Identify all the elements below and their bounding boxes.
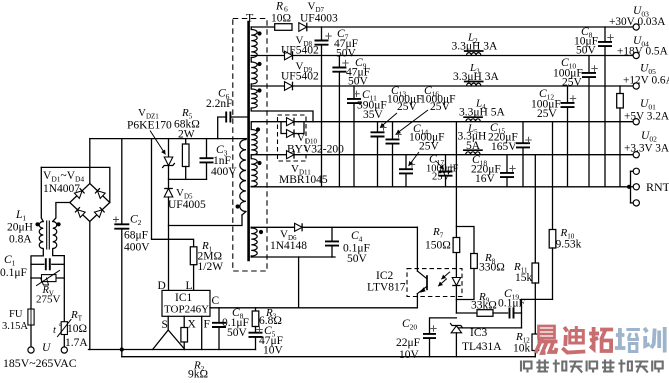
svg-text:400V: 400V: [124, 242, 150, 254]
wire C pin control node: [210, 307, 417, 309]
svg-text:TL431A: TL431A: [462, 341, 502, 353]
svg-text:+30V 0.03A: +30V 0.03A: [609, 16, 666, 28]
wire bias winding top: [251, 226, 294, 228]
diode VD5 UF4005: [164, 189, 173, 198]
svg-text:1/2W: 1/2W: [198, 261, 224, 273]
inductor L2 3.3uH 3A: [467, 53, 481, 56]
svg-text:50V: 50V: [227, 327, 248, 339]
svg-text:1N4148: 1N4148: [270, 240, 307, 252]
secondary winding group 5V: [250, 122, 252, 130]
diode VD7 UF4003: [299, 23, 307, 32]
capacitor C14 1000uF 25V: [405, 155, 407, 170]
svg-text:F: F: [204, 319, 210, 331]
svg-text:50V: 50V: [347, 253, 368, 265]
svg-text:25V: 25V: [562, 77, 583, 89]
capacitor C8 0.1uF 50V: [218, 308, 220, 323]
svg-text:P6KE170: P6KE170: [127, 120, 172, 132]
svg-text:0.1μF: 0.1μF: [0, 267, 27, 279]
capacitor C5 47uF 10V: [255, 327, 257, 333]
wire L1 top leads to bridge: [41, 167, 43, 221]
capacitor C16 1000uF 25V: [392, 122, 394, 140]
svg-text:UF4003: UF4003: [300, 13, 338, 25]
svg-text:IC2: IC2: [376, 270, 394, 282]
resistor R8 330ohm: [456, 227, 474, 254]
svg-text:D: D: [158, 280, 166, 292]
svg-text:FU: FU: [9, 309, 23, 320]
annotation arrow to C17: [436, 161, 444, 170]
svg-text:5A: 5A: [466, 140, 481, 152]
capacitor C15 220uF 165V: [522, 122, 524, 144]
capacitor C12 100uF 25V: [567, 86, 569, 103]
diode VD10b: [287, 130, 295, 138]
opto light arrows: [441, 272, 450, 280]
wire VD10 anode tie: [281, 122, 287, 134]
svg-text:185V~265VAC: 185V~265VAC: [3, 356, 77, 370]
wire drain node to primary bottom: [169, 215, 243, 226]
svg-text:X: X: [188, 319, 197, 331]
svg-text:3.3μH 3A: 3.3μH 3A: [452, 40, 498, 52]
output terminal U02 +3.3V: [633, 152, 639, 158]
svg-text:+3.3V 3A: +3.3V 3A: [624, 143, 669, 155]
primary phase dot: [236, 204, 240, 208]
capacitor C4 0.1uF 50V: [331, 227, 333, 241]
svg-text:T: T: [246, 11, 254, 25]
svg-text:TOP246Y: TOP246Y: [164, 304, 209, 316]
bridge diode VD3 (SW edge): [75, 207, 85, 217]
svg-text:25V: 25V: [432, 172, 451, 183]
capacitor C2 bulk 68uF 400V: [121, 139, 123, 225]
svg-text:1.7A: 1.7A: [65, 337, 88, 349]
wire S pin source V: [167, 316, 169, 330]
annotation arrow to VDZ1: [150, 131, 166, 155]
svg-text:UF5402: UF5402: [281, 45, 319, 57]
opto LED: [455, 253, 457, 278]
capacitor C11 390uF 35V: [353, 86, 355, 99]
wire secondary ground bus: [251, 186, 629, 188]
bridge diode VD1 (NW edge): [74, 188, 84, 198]
op IC1 TOP246Y box: [162, 290, 210, 316]
svg-text:25V: 25V: [430, 101, 451, 113]
svg-text:20μH: 20μH: [7, 222, 33, 234]
capacitor C10 100uF 25V: [588, 56, 590, 73]
svg-text:10V: 10V: [399, 349, 420, 361]
wire bridge plus to DC rail: [89, 139, 91, 184]
svg-text:3.15A: 3.15A: [2, 321, 28, 332]
svg-text:15k: 15k: [515, 272, 533, 284]
bridge diode VD2 (NE edge): [95, 188, 105, 198]
annotation arrow to C14: [409, 152, 420, 166]
wire F pin: [201, 316, 203, 349]
resistor R9 33k: [477, 310, 493, 317]
wire bridge minus to primary ground: [89, 222, 91, 350]
secondary winding group 18V: [251, 62, 257, 84]
capacitor C18 220uF 16V: [506, 155, 508, 173]
wire primary ground A: [89, 349, 256, 351]
capacitor C17 1000uF 25V: [445, 155, 447, 172]
opto phototransistor: [416, 227, 418, 271]
svg-text:50V: 50V: [576, 45, 597, 57]
svg-text:U: U: [42, 342, 51, 354]
wire VD10 cathode tie: [294, 122, 304, 134]
inductor L4 3.3uH 5A: [466, 119, 480, 122]
svg-text:°: °: [59, 322, 62, 331]
svg-text:BYV32-200: BYV32-200: [287, 144, 344, 156]
fuse FU: [30, 278, 32, 309]
RNT terminal group: [627, 185, 631, 189]
capacitor C3 1nF 400V: [206, 139, 208, 159]
svg-text:150Ω: 150Ω: [425, 240, 451, 252]
capacitor C20 22uF 10V: [430, 318, 457, 334]
svg-text:9.53k: 9.53k: [556, 238, 582, 250]
resistor R6 10ohm: [275, 24, 292, 31]
svg-text:165V: 165V: [491, 141, 517, 153]
wire R1 line-sense feed: [152, 139, 194, 247]
wire rail +30V: [251, 26, 275, 28]
capacitor C7 47uF 50V: [321, 27, 323, 40]
svg-text:UF4005: UF4005: [168, 199, 206, 211]
svg-text:IC3: IC3: [470, 327, 488, 339]
svg-text:10Ω: 10Ω: [271, 13, 291, 25]
wire 12V-winding stack tap to +5V rail: [251, 108, 313, 122]
diode VD10a: [287, 118, 295, 126]
bridge diode VD4 (SE edge): [94, 207, 104, 217]
secondary winding group 12V: [251, 89, 257, 108]
secondary winding group 30V: [250, 27, 252, 30]
resistor R2 9k on X pin: [183, 316, 185, 327]
svg-text:+5V 3.2A: +5V 3.2A: [624, 111, 669, 123]
svg-text:MBR1045: MBR1045: [279, 174, 328, 186]
transformer core: [247, 22, 250, 260]
svg-text:3.3μH 3A: 3.3μH 3A: [453, 71, 499, 83]
svg-text:10Ω: 10Ω: [67, 323, 87, 335]
svg-text:25V: 25V: [397, 101, 418, 113]
wire clamp bottom node: [169, 178, 207, 180]
svg-text:50V: 50V: [348, 76, 369, 88]
svg-text:+18V 0.5A: +18V 0.5A: [617, 46, 669, 58]
wire rail +12V: [251, 85, 284, 87]
diode VD6 1N4148: [295, 223, 303, 231]
svg-text:25V: 25V: [537, 108, 558, 120]
svg-text:1N4007: 1N4007: [43, 183, 80, 195]
svg-text:33kΩ: 33kΩ: [471, 300, 497, 312]
svg-text:330Ω: 330Ω: [479, 262, 505, 274]
wire bias return: [251, 256, 335, 258]
svg-text:68μF: 68μF: [124, 230, 148, 242]
svg-text:10V: 10V: [263, 345, 284, 357]
resistor R10 9.53k: [552, 122, 554, 230]
wire R9 C19 branch: [456, 312, 477, 314]
output terminal U01 +5V: [633, 119, 639, 125]
svg-text:R: R: [275, 1, 283, 13]
output terminal U03 +30V: [633, 24, 639, 30]
output terminal U05 +12V: [633, 83, 639, 89]
diode VD8 UF5402: [285, 51, 293, 60]
transformer T dashed box: [233, 19, 267, 272]
dual diode VD10 BYV32-200 dashed box (with VD11): [278, 115, 307, 161]
bleeder resistor: [619, 86, 621, 94]
wire rail +18V: [251, 55, 284, 57]
svg-text:0.8A: 0.8A: [9, 234, 32, 246]
output terminal U04 +18V: [633, 52, 639, 58]
svg-text:2.2nF: 2.2nF: [206, 98, 233, 110]
varistor RV: [31, 277, 64, 279]
bias winding: [250, 226, 252, 229]
thermistor RT: [63, 278, 65, 322]
annotation arrow to C16: [396, 110, 428, 134]
wire rail +5V: [252, 121, 287, 123]
svg-text:+12V 0.6A: +12V 0.6A: [623, 75, 669, 87]
svg-text:L: L: [186, 280, 193, 292]
capacitor C6 2.2nF: [218, 117, 226, 139]
wire rail +3.3V: [251, 154, 286, 156]
svg-text:RNT: RNT: [646, 180, 669, 194]
svg-text:10k: 10k: [513, 343, 531, 355]
wire L1 bottom leads: [31, 249, 43, 279]
watermark logo (stylized red/blue characters): [536, 326, 665, 353]
AC input terminal left: [28, 347, 34, 353]
wire TL431 ref: [459, 327, 522, 329]
common mode choke L1: [39, 222, 43, 249]
svg-text:IC1: IC1: [175, 292, 193, 304]
secondary winding group 3.3V: [250, 155, 252, 159]
node junction C2 / ground: [120, 347, 124, 351]
svg-text:25V: 25V: [419, 141, 440, 153]
svg-text:3.3μH 5A: 3.3μH 5A: [459, 107, 505, 119]
zener VDZ1 P6KE170: [168, 139, 170, 157]
capacitor C13 1000uF 25V: [377, 122, 379, 133]
svg-text:9kΩ: 9kΩ: [188, 369, 208, 379]
diode VD11 MBR1045: [287, 151, 295, 159]
resistor R7 150ohm: [455, 122, 457, 238]
capacitor C19 0.1uF: [510, 308, 514, 319]
bridge rectifier VD1-VD4: [70, 184, 110, 222]
resistor R11 15k: [534, 155, 536, 263]
optocoupler IC2 LTV817 dashed box: [407, 269, 462, 297]
svg-text:C: C: [212, 295, 220, 307]
watermark slogan (stylized gray characters): [521, 360, 663, 373]
primary winding: [240, 140, 246, 212]
resistor R1 2Mohm 1/2W: [190, 247, 197, 265]
svg-text:16V: 16V: [475, 173, 496, 185]
capacitor C1 (X-cap): [31, 263, 44, 265]
capacitor C9 47uF 50V: [338, 56, 340, 68]
resistor R3 6.8ohm: [255, 308, 257, 311]
svg-text:35V: 35V: [363, 109, 384, 121]
svg-text:22μF: 22μF: [396, 337, 420, 349]
annotation arrow to C13: [380, 113, 397, 128]
wire +DC rail: [90, 138, 247, 140]
wire primary ground B: [121, 350, 123, 357]
svg-text:UF5402: UF5402: [281, 71, 319, 83]
inductor L5 3.3uH 5A: [466, 152, 480, 155]
shunt reference IC3 TL431A: [451, 324, 463, 328]
wire crossover to bridge right corner: [41, 167, 110, 202]
wire ref jog: [522, 298, 553, 300]
wire ref node riser: [521, 299, 523, 328]
svg-text:2W: 2W: [178, 129, 195, 141]
resistor R5 68k 2W: [185, 139, 187, 144]
svg-text:S: S: [162, 319, 168, 331]
svg-text:275V: 275V: [36, 294, 61, 306]
inductor L3 3.3uH 3A: [467, 83, 481, 86]
capacitor C8b 10uF 50V: [604, 27, 606, 42]
AC input terminal right: [61, 347, 67, 353]
diode VD9 UF5402: [285, 82, 293, 91]
resistor R12 10k: [532, 334, 539, 351]
svg-text:LTV817: LTV817: [367, 282, 406, 294]
